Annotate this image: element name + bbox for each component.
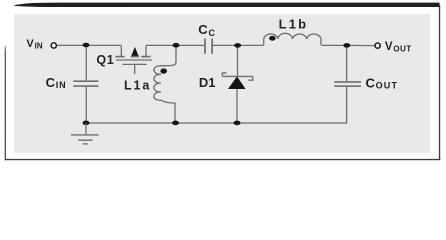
wire node C to L1b bbox=[238, 44, 264, 46]
bottom border bbox=[5, 159, 441, 160]
wire CIN top bbox=[85, 45, 87, 80]
Q1 drain foot bbox=[115, 56, 124, 58]
svg-text:L1a: L1a bbox=[124, 79, 151, 93]
svg-text:Q1: Q1 bbox=[96, 53, 114, 67]
L1a polarity dot bbox=[160, 68, 167, 73]
capacitor CIN bbox=[73, 81, 98, 86]
svg-text:IN: IN bbox=[56, 80, 67, 90]
wire CC to node C bbox=[213, 44, 238, 46]
ground node CIN bbox=[83, 121, 90, 126]
Q1 gate lead bbox=[134, 64, 136, 74]
node B junction bbox=[173, 43, 180, 48]
ground bbox=[71, 123, 99, 144]
svg-text:D1: D1 bbox=[199, 75, 216, 90]
svg-text:C: C bbox=[46, 75, 56, 90]
Q1 drain lead bbox=[120, 45, 122, 56]
svg-text:L1b: L1b bbox=[279, 17, 309, 32]
Q1 source lead bbox=[145, 45, 147, 56]
wire node B to capacitor CC bbox=[176, 44, 204, 46]
D1 cathode right hook bbox=[248, 76, 252, 80]
D1 cathode left hook bbox=[222, 73, 226, 77]
wire CIN bottom bbox=[85, 87, 87, 123]
svg-text:IN: IN bbox=[35, 42, 43, 51]
Q1 gate bar bbox=[122, 63, 146, 65]
svg-text:V: V bbox=[385, 41, 393, 53]
terminal VIN bbox=[51, 43, 56, 48]
wire L1b to node D bbox=[322, 44, 347, 46]
wire node A to Q1 drain bbox=[86, 44, 121, 46]
wire D1 anode to rail bbox=[236, 89, 238, 123]
wire node D to VOUT terminal bbox=[347, 44, 375, 46]
svg-text:V: V bbox=[26, 38, 34, 50]
L1b polarity dot bbox=[269, 36, 276, 41]
svg-text:C: C bbox=[198, 22, 208, 37]
top heavy rule bbox=[13, 3, 439, 7]
svg-text:OUT: OUT bbox=[393, 44, 411, 53]
Q1 body foot bbox=[131, 56, 140, 58]
bottom ground rail bbox=[86, 87, 347, 123]
right border bbox=[439, 5, 440, 160]
inductor L1a bbox=[154, 45, 176, 123]
node A junction bbox=[83, 43, 90, 48]
Q1 channel line bbox=[116, 59, 152, 61]
wire COUT top bbox=[346, 45, 348, 81]
terminal VOUT bbox=[375, 43, 380, 48]
capacitor CC bbox=[205, 39, 212, 54]
ground node D1 bbox=[234, 121, 241, 126]
wire VIN terminal to node A bbox=[57, 44, 86, 46]
Q1 body arrow bbox=[131, 47, 138, 56]
transistor Q1 bbox=[115, 45, 151, 74]
wire D1 cathode to node C bbox=[237, 45, 239, 76]
svg-text:OUT: OUT bbox=[376, 81, 399, 91]
inductor L1b bbox=[264, 33, 321, 45]
schematic canvas bbox=[14, 14, 430, 153]
wire Q1 source to node B bbox=[146, 44, 176, 46]
capacitor COUT bbox=[334, 82, 361, 86]
D1 cathode bar bbox=[222, 75, 252, 77]
Q1 source foot bbox=[141, 56, 150, 58]
ground node L1a bbox=[172, 121, 179, 126]
diode D1 (schottky) bbox=[229, 77, 245, 89]
svg-text:C: C bbox=[209, 28, 216, 38]
node C junction bbox=[234, 43, 241, 48]
node D junction bbox=[343, 43, 350, 48]
svg-text:C: C bbox=[366, 75, 376, 90]
